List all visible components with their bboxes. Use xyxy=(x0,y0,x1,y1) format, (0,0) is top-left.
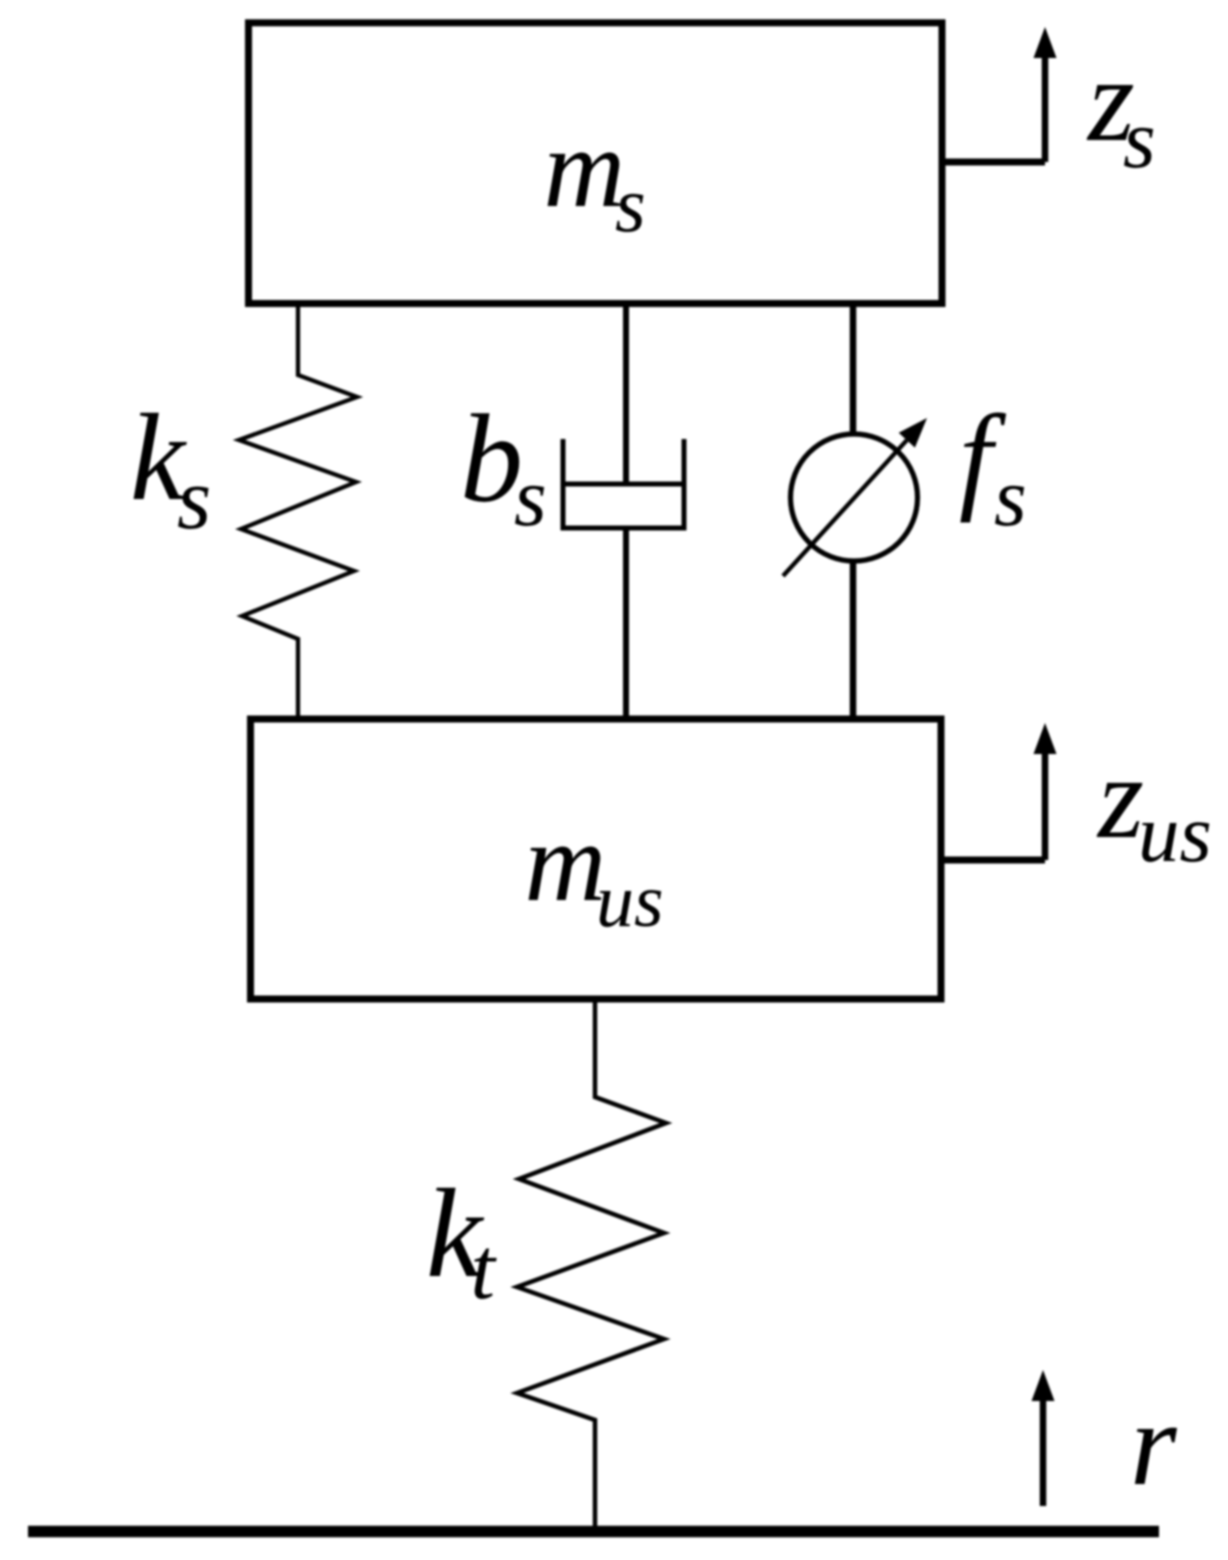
wire: z_us tap from m_us right edge xyxy=(941,857,1045,864)
svg-text:us: us xyxy=(1138,787,1212,879)
actuator f_s rod (top) xyxy=(850,303,857,436)
arrow z_s head xyxy=(1034,27,1057,58)
damper b_s cup xyxy=(563,439,684,528)
actuator f_s circle xyxy=(791,434,918,561)
wire: z_s tap from m_s right edge xyxy=(942,159,1045,166)
actuator f_s diagonal arrow shaft xyxy=(783,440,907,576)
ground line (road) xyxy=(28,1526,1159,1538)
svg-text:t: t xyxy=(471,1221,498,1318)
actuator f_s rod (bottom) xyxy=(850,560,857,719)
damper b_s piston plate xyxy=(563,482,684,487)
mass block m_us (unsprung mass) xyxy=(251,719,942,999)
arrow z_us head xyxy=(1034,723,1057,754)
svg-text:r: r xyxy=(1130,1377,1178,1510)
arrow z_s shaft xyxy=(1042,54,1049,162)
spring k_s (suspension spring) xyxy=(239,303,357,717)
svg-text:s: s xyxy=(615,162,646,249)
svg-text:s: s xyxy=(514,451,547,544)
spring k_t (tire stiffness) xyxy=(517,1000,666,1532)
arrow r head xyxy=(1032,1370,1055,1401)
svg-text:s: s xyxy=(1123,93,1156,186)
svg-text:us: us xyxy=(596,859,664,943)
actuator f_s diagonal arrow head xyxy=(899,418,927,448)
svg-text:m: m xyxy=(544,106,626,231)
arrow z_us shaft xyxy=(1042,750,1049,860)
svg-text:m: m xyxy=(525,800,607,925)
svg-text:z: z xyxy=(1096,732,1144,863)
damper b_s rod (top) xyxy=(623,303,629,484)
arrow r shaft xyxy=(1040,1397,1047,1506)
svg-text:s: s xyxy=(994,451,1027,544)
damper b_s rod (bottom) xyxy=(623,528,629,719)
svg-text:s: s xyxy=(177,451,211,548)
mass block m_s (sprung mass) xyxy=(249,23,943,304)
